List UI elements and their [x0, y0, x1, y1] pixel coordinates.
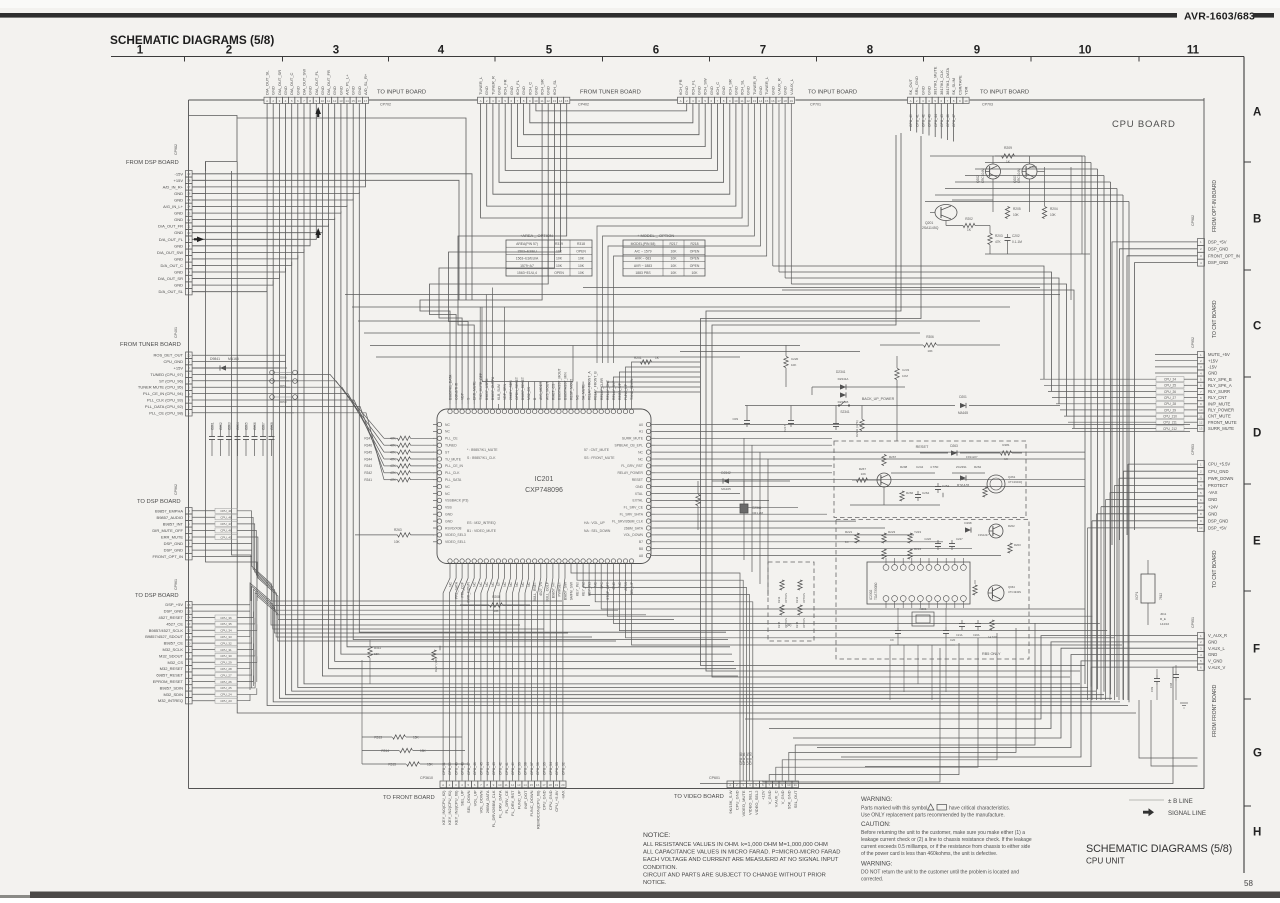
- svg-text:NC: NC: [638, 457, 643, 461]
- svg-text:CPU_30: CPU_30: [220, 654, 232, 658]
- svg-text:GND: GND: [612, 581, 616, 589]
- svg-text:CPU_42: CPU_42: [498, 762, 502, 775]
- svg-text:MODEL(PIN 58): MODEL(PIN 58): [631, 242, 656, 246]
- svg-text:2: 2: [226, 45, 232, 57]
- svg-text:TUNER_R: TUNER_R: [752, 76, 757, 95]
- svg-text:CPU_32: CPU_32: [562, 762, 566, 775]
- svg-text:GND: GND: [174, 243, 183, 248]
- svg-text:CPU_47: CPU_47: [952, 114, 956, 127]
- svg-text:GND: GND: [174, 211, 183, 216]
- svg-text:SEL_UP: SEL_UP: [630, 581, 634, 595]
- svg-text:TO FRONT BOARD: TO FRONT BOARD: [383, 795, 435, 801]
- svg-text:3: 3: [333, 45, 339, 57]
- svg-text:FRONT_OPT_IN: FRONT_OPT_IN: [1208, 253, 1240, 258]
- svg-text:A/D_IN_R+: A/D_IN_R+: [163, 184, 184, 189]
- svg-text:BACK_UP_POWER: BACK_UP_POWER: [862, 397, 895, 401]
- svg-text:12: 12: [333, 99, 337, 103]
- svg-text:R313: R313: [374, 735, 382, 739]
- svg-text:CSR/TAPE: CSR/TAPE: [957, 75, 962, 95]
- svg-text:NA : SEL_DOWN: NA : SEL_DOWN: [584, 529, 611, 533]
- svg-text:+15V: +15V: [174, 178, 184, 183]
- svg-text:GND: GND: [445, 519, 453, 523]
- svg-text:AREA(PIN 57): AREA(PIN 57): [516, 242, 538, 246]
- svg-text:GND: GND: [338, 86, 343, 95]
- svg-text:RSVD/X08: RSVD/X08: [445, 526, 462, 530]
- svg-text:NC: NC: [445, 485, 450, 489]
- svg-text:RELAY_FRONT_B: RELAY_FRONT_B: [594, 371, 598, 400]
- svg-text:V.AUX_L: V.AUX_L: [789, 78, 794, 95]
- svg-text:IN/P_MUTE: IN/P_MUTE: [1208, 401, 1231, 406]
- svg-text:6CH_FL: 6CH_FL: [690, 79, 695, 95]
- svg-text:ROS_DET_OUT: ROS_DET_OUT: [153, 353, 183, 358]
- svg-text:18: 18: [187, 179, 191, 183]
- svg-text:4527_CE: 4527_CE: [166, 621, 183, 626]
- svg-text:KEY_IN2: KEY_IN2: [582, 582, 586, 596]
- svg-text:DSP_GND: DSP_GND: [1208, 518, 1228, 523]
- svg-text:D201: D201: [959, 395, 967, 399]
- svg-text:15: 15: [187, 198, 191, 202]
- svg-text:D/A_OUT_FL: D/A_OUT_FL: [314, 70, 319, 95]
- svg-text:GND: GND: [635, 485, 643, 489]
- svg-text:GND: GND: [332, 86, 337, 95]
- svg-text:26KEY_SDN: 26KEY_SDN: [509, 380, 513, 400]
- svg-text:OPDN_RESET: OPDN_RESET: [515, 377, 519, 400]
- svg-text:D263: D263: [950, 444, 958, 448]
- svg-text:CPU_44: CPU_44: [934, 114, 938, 127]
- svg-text:R318: R318: [577, 242, 585, 246]
- svg-text:ES : M32_INTREQ: ES : M32_INTREQ: [467, 521, 496, 525]
- svg-text:GND: GND: [1208, 497, 1217, 502]
- svg-text:GND: GND: [351, 86, 356, 95]
- svg-text:CPU_+5.5V: CPU_+5.5V: [1208, 462, 1230, 467]
- svg-text:A: A: [1253, 107, 1261, 119]
- svg-text:CPU_GND: CPU_GND: [1208, 469, 1228, 474]
- svg-text:1SS1227: 1SS1227: [966, 455, 978, 459]
- svg-text:B9857/4527_SCLK: B9857/4527_SCLK: [149, 628, 184, 633]
- svg-text:CPU_212: CPU_212: [1163, 427, 1177, 431]
- svg-text:UTC1943Q: UTC1943Q: [1008, 480, 1023, 484]
- svg-text:144/16: 144/16: [1160, 622, 1170, 626]
- svg-text:CP982: CP982: [1191, 215, 1195, 226]
- svg-text:V_GND: V_GND: [1208, 659, 1222, 664]
- svg-text:JD86: JD86: [279, 376, 286, 380]
- svg-text:FUNC_UP: FUNC_UP: [517, 790, 522, 809]
- svg-text:PLL_CE_IN: PLL_CE_IN: [445, 464, 463, 468]
- svg-text:CPU_37: CPU_37: [530, 762, 534, 775]
- svg-text:2SA1145Q: 2SA1145Q: [922, 226, 939, 230]
- svg-text:Parts marked with this symbol: Parts marked with this symbol: [861, 806, 927, 812]
- svg-text:PLL_CLK (CPU_93): PLL_CLK (CPU_93): [147, 398, 184, 403]
- svg-text:R203: R203: [995, 234, 1003, 238]
- svg-text:V_GND: V_GND: [780, 790, 785, 804]
- svg-text:Q964: Q964: [1008, 585, 1015, 589]
- svg-text:B9857_OUTPA: B9857_OUTPA: [491, 376, 495, 400]
- svg-text:RLY_SURR: RLY_SURR: [1208, 389, 1230, 394]
- svg-text:TUNER_R: TUNER_R: [490, 76, 495, 95]
- svg-text:SIGNAL LINE: SIGNAL LINE: [1168, 810, 1206, 817]
- svg-text:19: 19: [790, 99, 794, 103]
- svg-text:TUNER_L: TUNER_L: [764, 76, 769, 95]
- svg-text:AVR ~ 683: AVR ~ 683: [635, 257, 651, 261]
- svg-text:CPU_38: CPU_38: [524, 762, 528, 775]
- svg-text:ERR_MUTE: ERR_MUTE: [473, 381, 477, 400]
- svg-text:SRL_GND: SRL_GND: [914, 76, 919, 95]
- svg-text:14.7/16: 14.7/16: [988, 635, 997, 639]
- svg-text:15: 15: [187, 609, 191, 613]
- svg-text:M32_CS: M32_CS: [527, 386, 531, 400]
- svg-text:AVS_MOUT: AVS_MOUT: [545, 382, 549, 400]
- svg-text:-15V: -15V: [175, 171, 184, 176]
- svg-text:GND: GND: [533, 86, 538, 95]
- svg-text:+15V: +15V: [1208, 358, 1218, 363]
- svg-text:15: 15: [530, 783, 534, 787]
- svg-text:17: 17: [542, 783, 546, 787]
- svg-text:KEY_IN0(CPU_62): KEY_IN0(CPU_62): [441, 790, 446, 825]
- svg-text:D/A_OUT_FR: D/A_OUT_FR: [326, 70, 331, 95]
- svg-text:R217: R217: [669, 242, 677, 246]
- svg-text:10K: 10K: [556, 257, 563, 261]
- svg-text:XCP1: XCP1: [1135, 591, 1139, 600]
- svg-text:RLY_SPK_A: RLY_SPK_A: [1208, 383, 1232, 388]
- svg-text:PLL_SATA: PLL_SATA: [445, 478, 462, 482]
- svg-text:ST: ST: [497, 582, 501, 586]
- svg-text:S : B9857/K1_CLK: S : B9857/K1_CLK: [467, 456, 496, 460]
- svg-text:RELAY_ONT: RELAY_ONT: [606, 380, 610, 400]
- svg-text:NC: NC: [479, 581, 483, 586]
- svg-text:RB5 ONLY: RB5 ONLY: [982, 652, 1001, 656]
- svg-text:15: 15: [565, 99, 569, 103]
- svg-text:10: 10: [734, 99, 738, 103]
- svg-text:B9857/4527_SDOUT: B9857/4527_SDOUT: [145, 634, 183, 639]
- svg-text:VOL_DOWN: VOL_DOWN: [479, 790, 484, 813]
- svg-text:GND: GND: [758, 86, 763, 95]
- svg-text:TUNED (CPU_97): TUNED (CPU_97): [150, 372, 183, 377]
- svg-text:Use ONLY replacement parts rec: Use ONLY replacement parts recommended b…: [861, 813, 1005, 819]
- svg-text:26BM_SATA: 26BM_SATA: [624, 526, 644, 530]
- svg-text:D/A_OUT_SR: D/A_OUT_SR: [277, 70, 282, 95]
- svg-text:0.1-1M: 0.1-1M: [1012, 240, 1022, 244]
- svg-text:16: 16: [536, 783, 540, 787]
- svg-text:FRONT_MUTE: FRONT_MUTE: [1208, 420, 1237, 425]
- svg-text:FL_GRV_RST: FL_GRV_RST: [621, 464, 643, 468]
- svg-text:17: 17: [187, 185, 191, 189]
- svg-text:MT2UL55: MT2UL55: [957, 483, 970, 487]
- svg-text:GND: GND: [920, 86, 925, 95]
- svg-text:UTC1943N: UTC1943N: [1008, 590, 1021, 594]
- svg-text:CPU_25: CPU_25: [220, 686, 232, 690]
- svg-text:6CH_C: 6CH_C: [527, 82, 532, 95]
- svg-text:NC: NC: [576, 395, 580, 400]
- svg-text:PLL_CE (CPU_98): PLL_CE (CPU_98): [149, 410, 183, 415]
- svg-text:11: 11: [741, 99, 744, 103]
- svg-text:A/D_PL_L+: A/D_PL_L+: [345, 74, 350, 95]
- svg-text:OPTION: OPTION: [802, 618, 806, 628]
- svg-text:R_E: R_E: [1160, 617, 1166, 621]
- svg-text:ZC2391: ZC2391: [956, 465, 967, 469]
- svg-text:TO INPUT BOARD: TO INPUT BOARD: [808, 90, 857, 96]
- svg-text:DIR_MUTE_OFF: DIR_MUTE_OFF: [152, 528, 183, 533]
- svg-text:+AREA _ OPTION: +AREA _ OPTION: [520, 233, 553, 238]
- svg-text:B9857_EMPHA: B9857_EMPHA: [155, 508, 183, 513]
- svg-text:R208: R208: [492, 595, 500, 599]
- svg-text:YDR: YDR: [963, 86, 968, 95]
- svg-text:10K: 10K: [578, 271, 585, 275]
- svg-text:14: 14: [187, 205, 191, 209]
- svg-text:FL_DRV_RST: FL_DRV_RST: [510, 790, 515, 816]
- svg-text:R201: R201: [634, 356, 642, 360]
- svg-text:7812: 7812: [1159, 593, 1163, 600]
- svg-text:C254: C254: [942, 484, 950, 488]
- svg-text:+24V: +24V: [1208, 504, 1218, 509]
- svg-text:PLL_DATA (CPU_92): PLL_DATA (CPU_92): [145, 404, 184, 409]
- svg-text:CPU_46: CPU_46: [220, 529, 232, 533]
- svg-text:26BM_DATA: 26BM_DATA: [485, 790, 490, 813]
- svg-text:1563~E3/EU: 1563~E3/EU: [517, 249, 537, 253]
- svg-text:R224: R224: [914, 547, 922, 551]
- svg-text:D9841: D9841: [210, 357, 220, 361]
- svg-text:CP952: CP952: [1191, 337, 1195, 348]
- svg-text:MA165: MA165: [721, 487, 731, 491]
- svg-text:OPTION: OPTION: [784, 593, 788, 603]
- svg-text:CPU_40: CPU_40: [511, 762, 515, 775]
- svg-text:R2341 (4.7K): R2341 (4.7K): [855, 420, 859, 437]
- svg-text:D/A_OUT_FL: D/A_OUT_FL: [159, 237, 184, 242]
- svg-text:CXP748096: CXP748096: [525, 487, 563, 494]
- svg-text:* : B9857/K1_MUTE: * : B9857/K1_MUTE: [467, 448, 498, 452]
- svg-text:FROM OPT-IN BOARD: FROM OPT-IN BOARD: [1212, 180, 1218, 232]
- svg-text:X201: X201: [919, 607, 926, 611]
- svg-text:47K: 47K: [390, 457, 397, 461]
- svg-text:RESET: RESET: [916, 445, 929, 449]
- svg-text:CPU_39: CPU_39: [517, 762, 521, 775]
- svg-text:ALL CAPACITANCE VALUES IN MICR: ALL CAPACITANCE VALUES IN MICRO FARAD. P…: [643, 850, 840, 856]
- svg-text:SK_OUT: SK_OUT: [908, 78, 913, 95]
- svg-text:NC: NC: [618, 581, 622, 586]
- svg-text:M32_SDIN: M32_SDIN: [163, 692, 183, 697]
- svg-text:A: A: [480, 99, 482, 103]
- svg-text:11: 11: [1199, 414, 1202, 418]
- svg-text:SURR_MUTE: SURR_MUTE: [622, 437, 644, 441]
- svg-text:10K: 10K: [556, 249, 563, 253]
- svg-text:ST (CPU_96): ST (CPU_96): [159, 378, 184, 383]
- svg-text:CPU_24: CPU_24: [1164, 378, 1176, 382]
- svg-text:11: 11: [327, 99, 330, 103]
- svg-text:OPEN: OPEN: [690, 249, 700, 253]
- svg-text:GND: GND: [174, 217, 183, 222]
- svg-text:47K: 47K: [390, 450, 397, 454]
- svg-text:current exceeds 0.5 milliamps,: current exceeds 0.5 milliamps, or if the…: [861, 844, 1030, 850]
- svg-text:NC: NC: [445, 430, 450, 434]
- svg-text:CPU_28: CPU_28: [220, 667, 232, 671]
- svg-text:9K/15K_S-W: 9K/15K_S-W: [728, 790, 733, 813]
- svg-text:CPU BOARD: CPU BOARD: [1112, 119, 1176, 130]
- svg-text:10K: 10K: [670, 264, 677, 268]
- svg-text:KEY_IN0: KEY_IN0: [576, 582, 580, 596]
- svg-text:CP701: CP701: [810, 103, 821, 107]
- svg-text:S5L_OUT: S5L_OUT: [793, 790, 798, 808]
- svg-text:SCHEMATIC DIAGRAMS (5/8): SCHEMATIC DIAGRAMS (5/8): [1086, 843, 1232, 855]
- svg-text:5: 5: [546, 45, 553, 57]
- svg-text:MUTE_+5V: MUTE_+5V: [1208, 352, 1230, 357]
- svg-text:RLY_CNT: RLY_CNT: [1208, 395, 1227, 400]
- svg-text:-15V: -15V: [1208, 365, 1217, 370]
- svg-text:E: E: [1253, 536, 1261, 548]
- svg-text:D2341B: D2341B: [838, 400, 849, 404]
- svg-text:17: 17: [777, 99, 781, 103]
- svg-text:10K: 10K: [791, 363, 796, 367]
- svg-text:Y223: Y223: [914, 530, 921, 534]
- svg-text:IC201: IC201: [535, 476, 554, 483]
- svg-text:12: 12: [187, 218, 191, 222]
- svg-text:FROM TUNER BOARD: FROM TUNER BOARD: [120, 342, 181, 348]
- svg-text:10: 10: [187, 353, 191, 357]
- svg-text:CONDITION.: CONDITION.: [643, 865, 678, 871]
- svg-text:14: 14: [559, 99, 563, 103]
- svg-text:CPU_27: CPU_27: [1164, 396, 1176, 400]
- svg-text:58: 58: [1244, 879, 1253, 888]
- svg-text:CPU_34: CPU_34: [549, 762, 553, 775]
- svg-text:TO CNT BOARD: TO CNT BOARD: [1212, 300, 1218, 338]
- svg-text:DSP_GND: DSP_GND: [164, 609, 183, 614]
- svg-text:TUNER_L: TUNER_L: [478, 76, 483, 95]
- svg-text:TDA7330B0: TDA7330B0: [874, 582, 878, 600]
- svg-text:17: 17: [364, 99, 368, 103]
- svg-text:20: 20: [561, 783, 565, 787]
- svg-text:VSS: VSS: [445, 506, 453, 510]
- svg-text:D/A_OUT_SW: D/A_OUT_SW: [157, 250, 183, 255]
- svg-text:14: 14: [345, 99, 349, 103]
- svg-text:10M: 10M: [902, 374, 908, 378]
- svg-text:C: C: [1253, 321, 1261, 333]
- svg-text:-VAX: -VAX: [561, 790, 566, 799]
- svg-text:R311: R311: [374, 646, 381, 650]
- svg-text:10: 10: [964, 99, 968, 103]
- svg-text:GND: GND: [497, 86, 502, 95]
- svg-text:ERR_MUTE: ERR_MUTE: [161, 535, 183, 540]
- svg-text:PRL_CDF: PRL_CDF: [461, 582, 465, 597]
- svg-text:CPU_35: CPU_35: [220, 622, 232, 626]
- svg-text:of the power card is less than: of the power card is less than 460kohms,…: [861, 851, 997, 857]
- svg-text:10K: 10K: [578, 264, 585, 268]
- svg-text:C202: C202: [1012, 234, 1020, 238]
- svg-text:CPU_41: CPU_41: [505, 762, 509, 775]
- svg-text:7: 7: [760, 45, 766, 57]
- svg-text:CPU_49: CPU_49: [220, 509, 232, 513]
- svg-text:C205: C205: [245, 422, 249, 430]
- svg-text:OPEN: OPEN: [554, 271, 564, 275]
- svg-text:1K: 1K: [1004, 457, 1008, 461]
- svg-text:GND: GND: [684, 86, 689, 95]
- svg-text:IN/P_DOT: IN/P_DOT: [523, 790, 528, 809]
- svg-text:D298: D298: [964, 521, 972, 525]
- svg-text:SEL_UP: SEL_UP: [460, 790, 465, 806]
- svg-text:CPU_45: CPU_45: [220, 535, 232, 539]
- svg-text:V.AUX_L: V.AUX_L: [1208, 646, 1226, 651]
- svg-text:10: 10: [498, 783, 502, 787]
- svg-text:CPU_GND: CPU_GND: [735, 790, 740, 810]
- svg-text:CPU_28: CPU_28: [1164, 402, 1176, 406]
- svg-text:B9857_CE: B9857_CE: [164, 641, 184, 646]
- svg-text:14: 14: [523, 783, 527, 787]
- svg-text:GND: GND: [509, 86, 514, 95]
- svg-text:R202: R202: [1008, 524, 1015, 528]
- svg-text:R344: R344: [364, 457, 372, 461]
- svg-text:GND: GND: [283, 86, 288, 95]
- svg-text:WARNING:: WARNING:: [861, 861, 893, 868]
- svg-text:9A/FM_S/W: 9A/FM_S/W: [570, 581, 574, 600]
- svg-text:D/A_OUT_SL: D/A_OUT_SL: [265, 70, 270, 95]
- svg-text:C203: C203: [228, 422, 232, 430]
- svg-text:CP601: CP601: [709, 776, 720, 780]
- svg-text:GND: GND: [1208, 371, 1217, 376]
- svg-text:R213: R213: [777, 596, 781, 603]
- svg-text:NC: NC: [449, 581, 453, 586]
- svg-text:CPU_48: CPU_48: [220, 516, 232, 520]
- svg-text:18: 18: [783, 99, 787, 103]
- svg-text:R345: R345: [364, 450, 372, 454]
- svg-text:TO DSP BOARD: TO DSP BOARD: [137, 499, 181, 505]
- svg-text:OPTION: OPTION: [784, 618, 788, 628]
- svg-text:OPEN: OPEN: [576, 249, 586, 253]
- svg-text:FL_DRV/26BM_CLK: FL_DRV/26BM_CLK: [491, 790, 496, 827]
- svg-text:DSP_GND: DSP_GND: [1208, 246, 1228, 251]
- svg-text:XTAL: XTAL: [635, 492, 643, 496]
- svg-text:CPU_29: CPU_29: [1164, 408, 1176, 412]
- svg-text:GND: GND: [733, 86, 738, 95]
- svg-text:3817/K1_CLK: 3817/K1_CLK: [939, 70, 944, 95]
- svg-text:10K: 10K: [1050, 213, 1057, 217]
- svg-text:Q201: Q201: [925, 221, 933, 225]
- svg-text:RELAY_CLRR: RELAY_CLRR: [600, 377, 604, 400]
- svg-text:11: 11: [541, 99, 544, 103]
- svg-text:15K: 15K: [413, 735, 420, 739]
- svg-text:GND: GND: [295, 86, 300, 95]
- svg-text:corrected.: corrected.: [861, 877, 883, 883]
- svg-text:15: 15: [352, 99, 356, 103]
- svg-text:SEL_DOWN: SEL_DOWN: [466, 790, 471, 813]
- svg-text:10: 10: [534, 99, 538, 103]
- svg-text:B9857_AUDIO: B9857_AUDIO: [157, 515, 183, 520]
- svg-text:PLL_CE_IN (CPU_94): PLL_CE_IN (CPU_94): [143, 391, 184, 396]
- svg-text:47K: 47K: [390, 478, 397, 482]
- svg-text:PLL_CE: PLL_CE: [445, 437, 458, 441]
- svg-text:18: 18: [549, 783, 553, 787]
- svg-text:CPU_25: CPU_25: [1164, 384, 1176, 388]
- svg-text:8: 8: [867, 45, 874, 57]
- svg-text:R204: R204: [1050, 207, 1058, 211]
- svg-text:H: H: [1253, 827, 1261, 839]
- svg-text:12: 12: [511, 783, 515, 787]
- svg-text:CPU_33: CPU_33: [220, 635, 232, 639]
- svg-text:R267: R267: [889, 455, 897, 459]
- svg-text:10: 10: [321, 99, 325, 103]
- svg-text:STOP_OPT: STOP_OPT: [606, 582, 610, 600]
- svg-text:TO DSP BOARD: TO DSP BOARD: [135, 593, 179, 599]
- svg-text:RELAY_FRONT_A: RELAY_FRONT_A: [588, 371, 592, 400]
- svg-text:C264: C264: [922, 491, 930, 495]
- svg-text:47K: 47K: [390, 437, 397, 441]
- svg-text:GND: GND: [1208, 640, 1217, 645]
- svg-text:GND: GND: [308, 86, 313, 95]
- svg-text:D/A_OUT_C: D/A_OUT_C: [161, 263, 184, 268]
- svg-text:10K: 10K: [578, 257, 585, 261]
- svg-text:AVS_MDET: AVS_MDET: [539, 382, 543, 400]
- svg-text:10: 10: [187, 641, 191, 645]
- svg-text:12: 12: [187, 629, 191, 633]
- svg-text:69857_RESET: 69857_RESET: [156, 673, 183, 678]
- svg-text:GND: GND: [1208, 511, 1217, 516]
- svg-text:D2341: D2341: [836, 370, 846, 374]
